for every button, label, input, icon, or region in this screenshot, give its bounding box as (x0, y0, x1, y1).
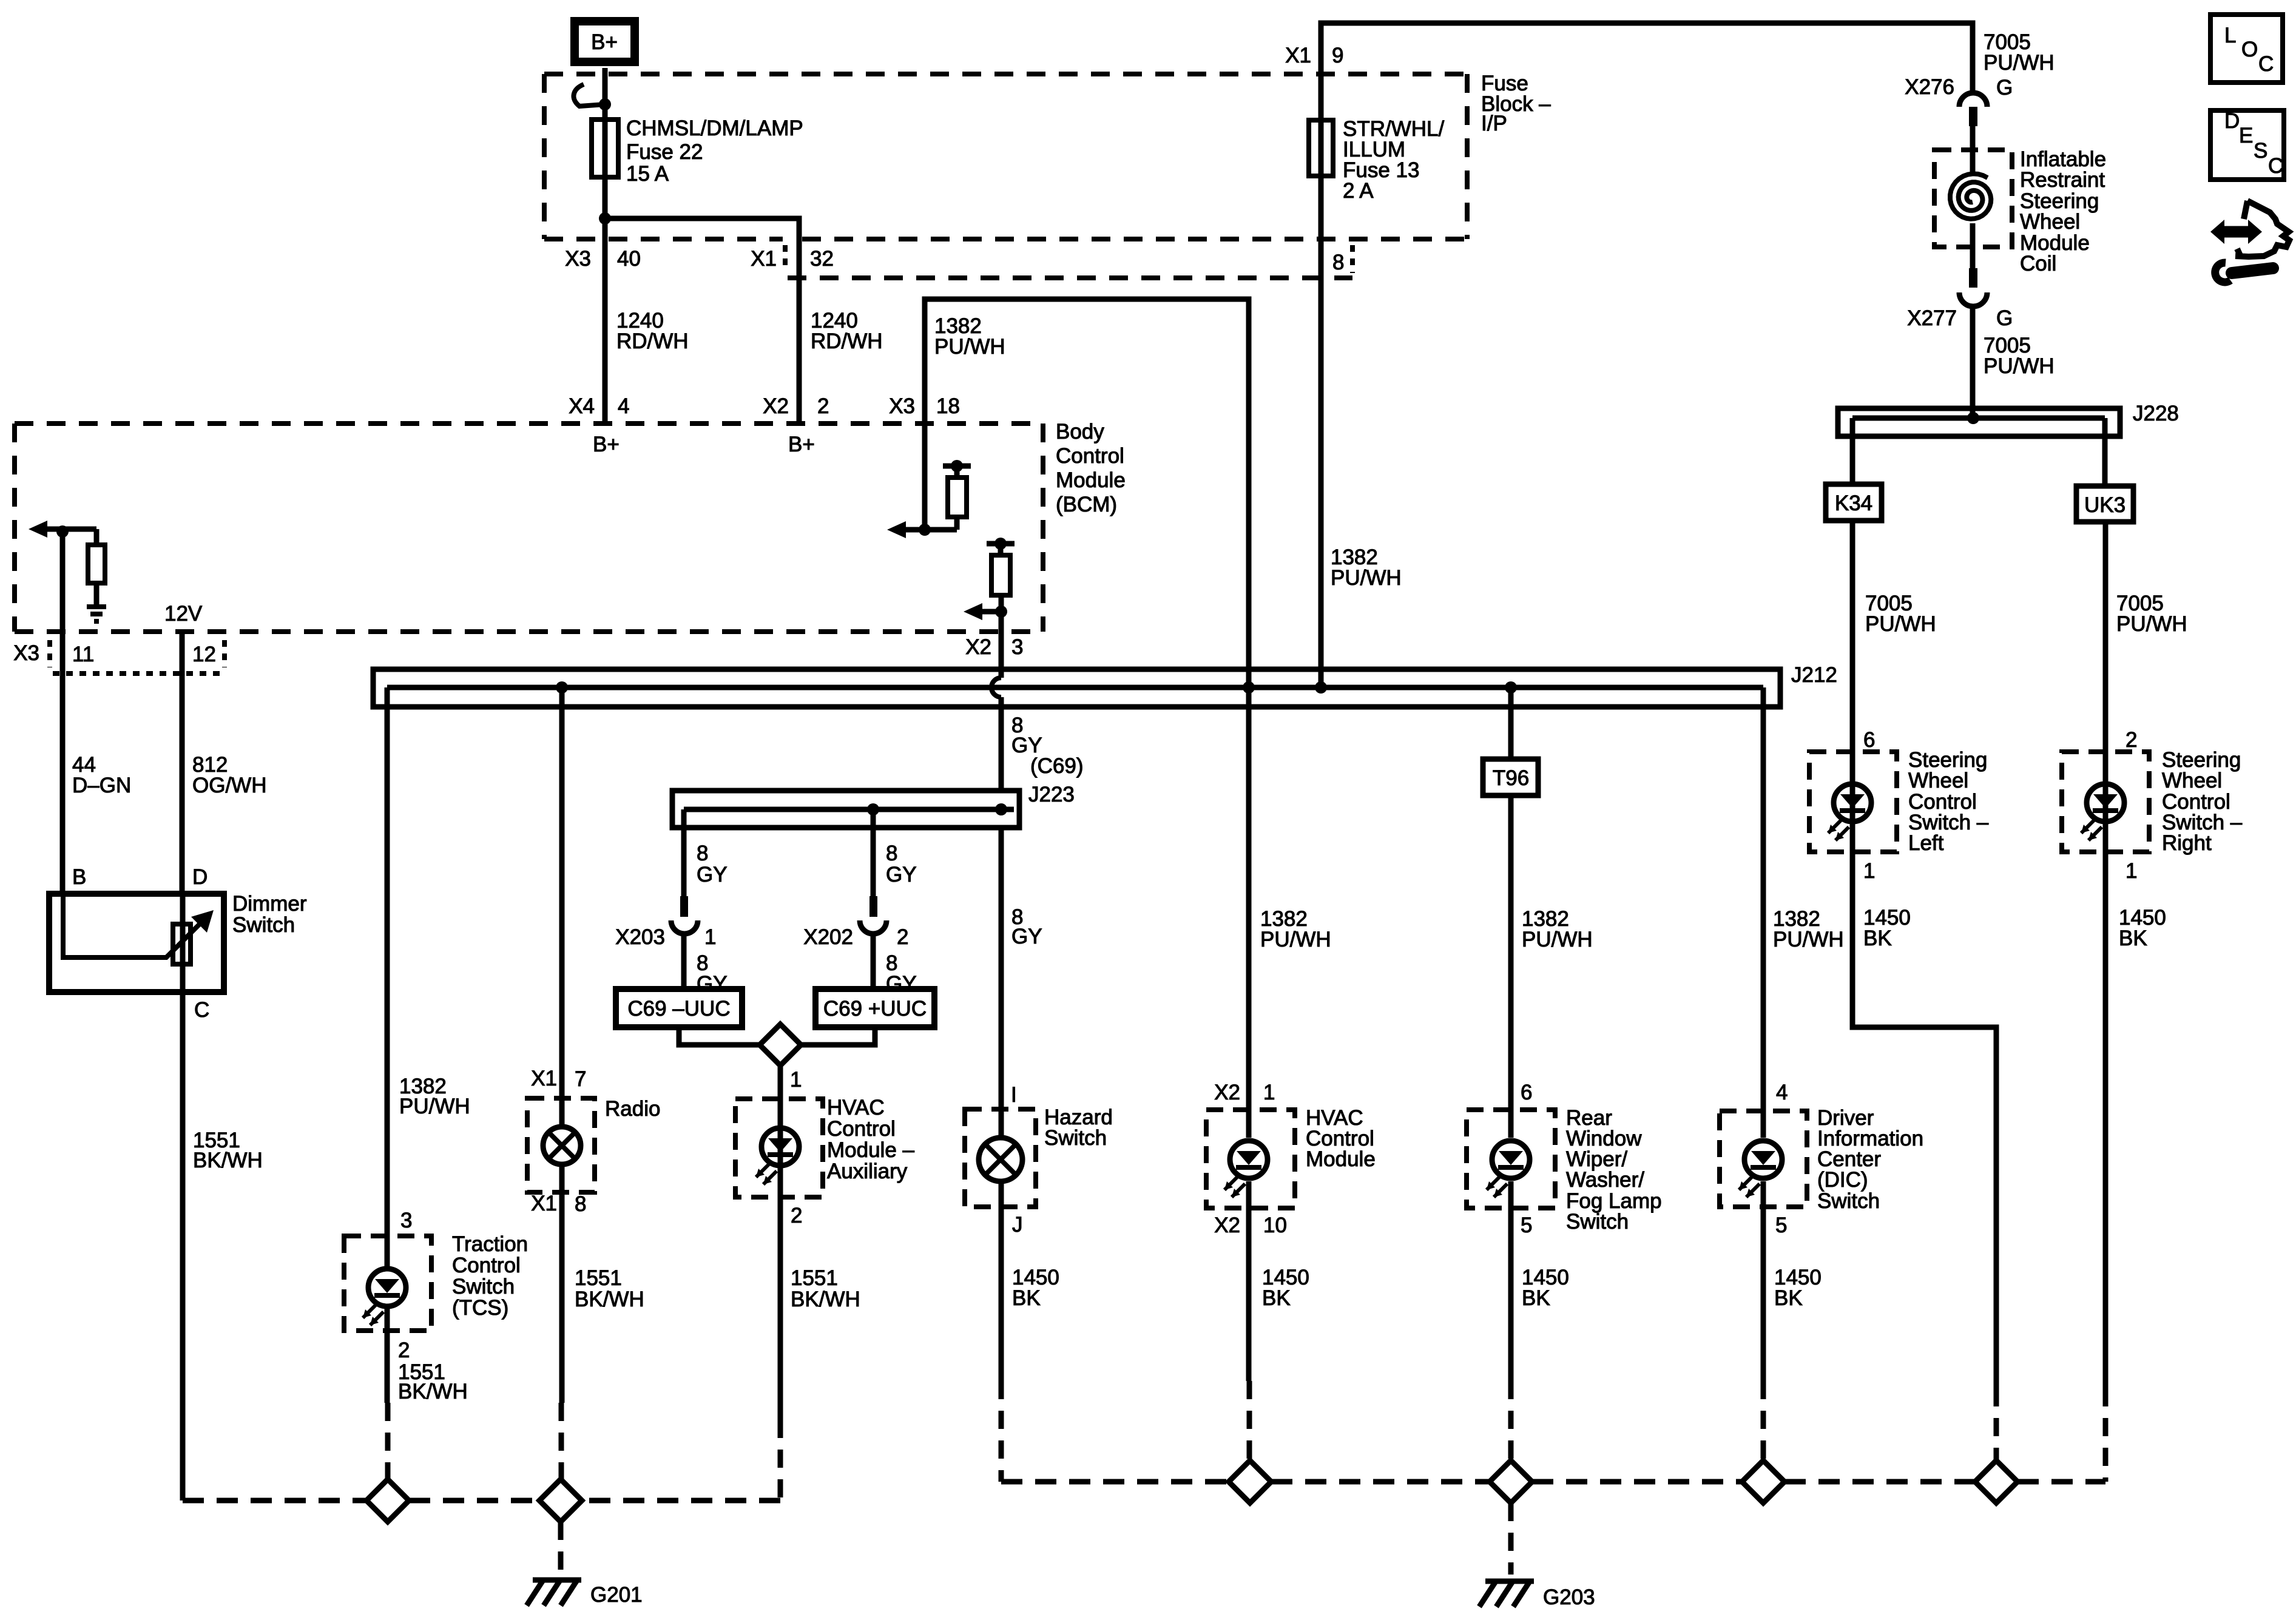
svg-text:C: C (2258, 52, 2274, 76)
splice diamond (539, 1479, 582, 1522)
pin 6 (1521, 1081, 1532, 1104)
wire label 1551 BK/WH (398, 1360, 468, 1403)
svg-text:Washer/: Washer/ (1566, 1168, 1644, 1192)
wire label 1240 RD/WH (811, 309, 883, 353)
svg-text:Wheel: Wheel (2162, 769, 2222, 792)
svg-text:3: 3 (400, 1209, 412, 1232)
hazard label (1044, 1106, 1113, 1150)
wire branch to X1 32 (605, 218, 799, 424)
svg-text:Left: Left (1908, 831, 1944, 855)
wire label 1551 BK/WH (575, 1266, 644, 1311)
circuit breaker hook (573, 84, 605, 106)
svg-text:X2: X2 (965, 635, 991, 659)
svg-text:4: 4 (1776, 1081, 1788, 1104)
wire X276 to coil (1970, 126, 1976, 150)
svg-text:HVAC: HVAC (827, 1096, 885, 1119)
pin X2 3 (965, 635, 1023, 659)
wire label 44 D-GN (72, 753, 131, 797)
svg-text:BK: BK (1863, 927, 1892, 950)
wire BCM X2-3 output (999, 612, 1004, 678)
svg-text:X277: X277 (1907, 306, 1957, 330)
internal supply bar (943, 460, 971, 472)
net label 12V (164, 602, 203, 626)
pin J (1012, 1213, 1023, 1237)
option box T96 (1483, 759, 1538, 795)
svg-text:10: 10 (1263, 1214, 1287, 1237)
svg-text:X1: X1 (1285, 44, 1311, 67)
svg-text:PU/WH: PU/WH (1331, 566, 1402, 590)
HVAC control module label (1306, 1106, 1376, 1171)
fuse block label (1481, 72, 1551, 135)
svg-text:GY: GY (886, 972, 917, 996)
svg-text:D: D (2224, 109, 2240, 133)
pin X1 9 (1285, 44, 1343, 67)
svg-text:RD/WH: RD/WH (616, 329, 689, 353)
svg-text:BK/WH: BK/WH (398, 1380, 468, 1403)
wire to splice diamond (801, 1027, 875, 1045)
svg-text:1: 1 (1863, 859, 1875, 883)
wire HVAC aux ground (582, 1197, 780, 1501)
BCM label (1056, 420, 1126, 516)
svg-text:Module: Module (1306, 1147, 1376, 1171)
internal output arrow (887, 521, 957, 538)
svg-text:(DIC): (DIC) (1817, 1168, 1868, 1192)
rear wiper switch dashed box (1467, 1110, 1555, 1208)
svg-text:E: E (2239, 124, 2253, 147)
HVAC control module dashed box (1206, 1110, 1295, 1208)
pin X1 32 (751, 247, 834, 271)
wire to splice diamond (679, 1027, 760, 1045)
svg-text:PU/WH: PU/WH (934, 335, 1005, 359)
HVAC Control Module Auxiliary dashed box (735, 1099, 823, 1197)
splice pack J228 (1838, 408, 2120, 436)
internal earth ground (87, 607, 106, 621)
internal pull-up resistor R1 (948, 467, 967, 530)
fuse F22 body (592, 120, 618, 177)
svg-text:K34: K34 (1835, 491, 1872, 515)
svg-text:G201: G201 (590, 1583, 643, 1607)
wire hop over J212 (991, 632, 1001, 791)
pin X3 18 (889, 394, 960, 418)
svg-text:8: 8 (886, 842, 897, 865)
wire label 1450 BK (1012, 1266, 1059, 1310)
wire 812 OG/WH (180, 632, 185, 894)
svg-text:B+: B+ (591, 30, 618, 54)
svg-text:B+: B+ (788, 433, 815, 456)
pin 2 (398, 1338, 410, 1362)
splice label J212 (1791, 663, 1837, 687)
ground bus dashed right (1001, 1479, 2105, 1485)
splice diamond (760, 1024, 801, 1065)
svg-text:Dimmer: Dimmer (232, 892, 307, 916)
svg-text:1551: 1551 (575, 1266, 622, 1290)
svg-text:6: 6 (1863, 728, 1875, 752)
wire wiper ground (1508, 1181, 1514, 1460)
wire 44 D-GN (60, 532, 66, 894)
svg-text:PU/WH: PU/WH (399, 1095, 470, 1118)
svg-text:X1: X1 (751, 247, 777, 271)
svg-text:J223: J223 (1028, 783, 1075, 806)
svg-text:12V: 12V (164, 602, 203, 626)
legend icon arrows and wrench (2210, 201, 2289, 282)
pin X4 4 (569, 394, 629, 418)
pin 5 (1521, 1214, 1532, 1237)
junction dot J212 hvac (1243, 681, 1255, 694)
wire steering right ground (2103, 852, 2109, 1482)
wire label 1382 PU/WH (1331, 545, 1402, 590)
svg-text:X202: X202 (803, 925, 853, 949)
svg-text:Right: Right (2162, 831, 2212, 855)
svg-text:2: 2 (817, 394, 829, 418)
wire B+ feed to fuse 22 (603, 68, 608, 424)
connector X277 G (1907, 247, 2013, 330)
steering left LED indicator (1828, 784, 1871, 852)
svg-text:6: 6 (1521, 1081, 1532, 1104)
dimmer switch label (232, 892, 307, 937)
svg-text:J: J (1012, 1213, 1023, 1237)
ground G203 (1479, 1581, 1595, 1609)
pin C (194, 998, 209, 1022)
ground bus dashed (183, 1498, 539, 1504)
svg-text:GY: GY (1011, 925, 1042, 948)
svg-text:GY: GY (697, 972, 728, 996)
junction dot J228 (1967, 412, 1979, 424)
svg-text:BK/WH: BK/WH (193, 1149, 263, 1172)
wire UK3 to steering switch right (2103, 522, 2109, 784)
steering wheel control switch right dashed box (2062, 752, 2149, 852)
Body Control Module dashed box (15, 424, 1043, 632)
svg-text:BK: BK (2119, 927, 2147, 950)
pin 2 (2125, 728, 2137, 752)
pin 5 (1775, 1214, 1787, 1237)
svg-text:Fuse 22: Fuse 22 (626, 140, 703, 164)
wire label 1382 PU/WH (1522, 907, 1593, 951)
svg-text:PU/WH: PU/WH (1865, 612, 1936, 636)
svg-text:Traction: Traction (452, 1232, 528, 1256)
svg-text:PU/WH: PU/WH (1522, 928, 1593, 951)
wire TCS ground (387, 1306, 388, 1479)
svg-text:Switch: Switch (1566, 1210, 1629, 1234)
svg-text:D: D (192, 865, 208, 889)
splice diamond (366, 1479, 409, 1522)
splice label J223 (1028, 783, 1075, 806)
wire label 1382 PU/WH (1773, 907, 1844, 951)
splice diamond (1975, 1460, 2017, 1503)
svg-text:Coil: Coil (2020, 252, 2056, 275)
svg-text:Switch: Switch (1044, 1126, 1107, 1150)
fuse block I/P module dashed box (544, 74, 1467, 239)
wire J212 to DIC (1761, 687, 1766, 1138)
wire HVAC ground (1249, 1181, 1249, 1460)
wire label 8 GY (886, 951, 917, 996)
svg-text:CHMSL/DM/LAMP: CHMSL/DM/LAMP (626, 116, 803, 140)
splice diamond (1490, 1460, 1532, 1503)
internal pull-up resistor R2 (991, 544, 1010, 612)
wire fuse13 top feed (1321, 23, 1973, 687)
svg-text:S: S (2254, 139, 2267, 163)
wire steering left ground (1852, 852, 1996, 1460)
svg-text:C69 –UUC: C69 –UUC (627, 997, 730, 1021)
wire label 812 OG/WH (192, 753, 266, 797)
svg-text:40: 40 (617, 247, 641, 271)
svg-text:Wheel: Wheel (1908, 769, 1968, 792)
svg-text:Body: Body (1056, 420, 1104, 444)
wire J228 to K34 (1850, 418, 1855, 484)
connector X203 pin 1 (615, 896, 716, 949)
steering right label (2162, 748, 2243, 855)
svg-text:2: 2 (398, 1338, 410, 1362)
junction dot (599, 98, 611, 110)
pin D (192, 865, 208, 889)
svg-text:PU/WH: PU/WH (2116, 612, 2187, 636)
traction control switch dashed box (344, 1236, 431, 1331)
svg-text:1551: 1551 (791, 1266, 838, 1290)
svg-text:5: 5 (1775, 1214, 1787, 1237)
wire X203 to C69-UUC (681, 934, 687, 989)
pin 1 (1863, 859, 1875, 883)
svg-text:G: G (1996, 306, 2013, 330)
svg-text:X2: X2 (1214, 1081, 1240, 1104)
svg-text:1: 1 (790, 1068, 802, 1092)
pin X2 10 (1214, 1214, 1287, 1237)
splice pack J212 (373, 669, 1780, 707)
svg-text:BK: BK (1522, 1286, 1550, 1310)
svg-text:X2: X2 (763, 394, 789, 418)
HVAC control module LED indicator (1224, 1141, 1268, 1197)
wire X3-18 loop to J212 (925, 299, 1249, 687)
svg-text:32: 32 (810, 247, 834, 271)
internal supply bar (987, 538, 1015, 550)
junction dot (919, 524, 931, 536)
wire label 1450 BK (1774, 1266, 1822, 1310)
junction dot J212 T96 (1505, 681, 1517, 694)
steering left label (1908, 748, 1989, 855)
svg-text:2: 2 (2125, 728, 2137, 752)
svg-text:B: B (72, 865, 86, 889)
junction dot J212 fuse13 (1315, 681, 1327, 694)
pin 3 (400, 1209, 412, 1232)
svg-text:G: G (1996, 76, 2013, 100)
HVAC aux label (827, 1096, 915, 1183)
splice diamond (1742, 1460, 1784, 1503)
svg-text:8: 8 (1332, 251, 1344, 274)
svg-text:Switch: Switch (1817, 1189, 1880, 1213)
svg-text:8: 8 (575, 1192, 586, 1216)
connector X3 pins 11 12 (13, 640, 225, 673)
wire label 7005 PU/WH (1865, 592, 1936, 636)
wire J212 to radio (559, 687, 565, 1127)
svg-text:(BCM): (BCM) (1056, 493, 1117, 516)
pin 1 (2125, 859, 2137, 883)
option box K34 (1826, 484, 1882, 521)
svg-text:1: 1 (704, 925, 716, 949)
svg-text:X2: X2 (1214, 1214, 1240, 1237)
wire 1551 BK/WH from dimmer (180, 992, 186, 1501)
svg-text:BK: BK (1012, 1286, 1041, 1310)
pin B (72, 865, 86, 889)
DIC LED indicator (1739, 1141, 1782, 1197)
connector X1 boundary dotted line (785, 245, 1352, 278)
svg-text:PU/WH: PU/WH (1773, 928, 1844, 951)
dimmer variable resistor (173, 894, 191, 992)
svg-text:7: 7 (575, 1067, 586, 1091)
wire J223 to hazard (999, 828, 1004, 1138)
svg-text:Control: Control (452, 1254, 521, 1277)
splice label J228 (2133, 402, 2179, 425)
legend box LOC (2210, 15, 2283, 83)
svg-text:X3: X3 (565, 247, 591, 271)
steering wheel control switch left dashed box (1809, 752, 1897, 852)
svg-text:1: 1 (1263, 1081, 1275, 1104)
wire to G201 (558, 1522, 564, 1573)
fuse 13 label (1343, 117, 1445, 203)
ground G201 (527, 1580, 643, 1607)
svg-text:11: 11 (72, 643, 94, 666)
pin 8 (1332, 251, 1344, 274)
internal input arrow (29, 521, 96, 538)
svg-text:GY: GY (886, 863, 917, 886)
svg-text:X4: X4 (569, 394, 595, 418)
pin X3 40 (565, 247, 641, 271)
junction dot J223 X202 (867, 803, 879, 815)
svg-text:BK: BK (1774, 1286, 1803, 1310)
net box C69 +UUC (815, 989, 934, 1027)
wire X202 to C69+UUC (871, 934, 876, 989)
svg-text:OG/WH: OG/WH (192, 774, 266, 797)
rear wiper label (1566, 1106, 1662, 1234)
svg-text:O: O (2241, 38, 2258, 61)
wire to G203 (1508, 1503, 1514, 1575)
net label B+ (593, 433, 620, 456)
svg-text:18: 18 (936, 394, 960, 418)
power symbol B+ (575, 21, 635, 62)
internal output arrow (964, 603, 1001, 620)
pin 2 (791, 1204, 802, 1227)
svg-text:8: 8 (697, 842, 708, 865)
svg-text:L: L (2224, 24, 2236, 47)
coil label (2020, 147, 2106, 275)
svg-text:PU/WH: PU/WH (1984, 51, 2055, 75)
dimmer wiper arm (63, 894, 214, 957)
wire label 8 GY C69 (1011, 714, 1084, 778)
wire radio ground (561, 1164, 562, 1479)
pin X2 1 (1214, 1081, 1275, 1104)
svg-text:T96: T96 (1493, 766, 1529, 790)
pin X1 8 (531, 1192, 586, 1216)
svg-text:Control: Control (1056, 444, 1124, 468)
DIC label (1817, 1106, 1923, 1213)
svg-text:I/P: I/P (1481, 112, 1507, 135)
wire label 1450 BK (1262, 1266, 1309, 1310)
wire inside BCM from pin 18 (922, 424, 928, 530)
svg-text:X203: X203 (615, 925, 665, 949)
wire label 1382 PU/WH (1260, 907, 1331, 951)
pin X1 7 (531, 1067, 586, 1091)
svg-text:2 A: 2 A (1343, 179, 1374, 203)
wire label 7005 PU/WH (1984, 334, 2055, 378)
rear wiper LED indicator (1487, 1141, 1530, 1197)
svg-text:X1: X1 (531, 1067, 557, 1090)
internal pull-down resistor R3 (88, 529, 105, 606)
junction dot (995, 606, 1007, 618)
splice diamond (1229, 1460, 1271, 1503)
svg-text:J212: J212 (1791, 663, 1837, 687)
svg-text:X1: X1 (531, 1192, 557, 1215)
svg-text:1: 1 (2125, 859, 2137, 883)
junction dot (56, 525, 69, 538)
svg-text:C69 +UUC: C69 +UUC (823, 997, 927, 1021)
wire label 1382 PU/WH (934, 314, 1005, 359)
wire hazard ground (999, 1181, 1004, 1482)
wire J212 to TCS (385, 687, 390, 1269)
svg-text:BK/WH: BK/WH (791, 1288, 860, 1311)
legend box DESC (2210, 109, 2284, 180)
coil spiral (1950, 150, 1991, 247)
svg-text:B+: B+ (593, 433, 620, 456)
pin 6 (1863, 728, 1875, 752)
svg-text:BK/WH: BK/WH (575, 1288, 644, 1311)
svg-text:PU/WH: PU/WH (1260, 928, 1331, 951)
wire label 1382 PU/WH (399, 1075, 470, 1118)
option box UK3 (2076, 486, 2133, 522)
wire label 7005 PU/WH (1984, 30, 2055, 75)
svg-text:12: 12 (192, 643, 216, 666)
wire 8 GY to X202 (871, 809, 876, 896)
wire label 7005 PU/WH (2116, 592, 2187, 636)
wire to HVAC aux pin 1 (778, 1065, 783, 1197)
wire X277 to J228 (1970, 305, 1976, 418)
svg-text:4: 4 (618, 394, 629, 418)
fuse 22 label (626, 116, 803, 186)
svg-text:I: I (1011, 1083, 1017, 1107)
svg-text:Control: Control (827, 1117, 896, 1141)
wire J228 to UK3 (2102, 418, 2108, 486)
pin 1 (790, 1068, 802, 1092)
svg-text:9: 9 (1332, 44, 1343, 67)
dimmer switch box (49, 894, 224, 992)
svg-text:(C69): (C69) (1030, 754, 1084, 778)
svg-text:GY: GY (697, 863, 728, 886)
svg-text:X276: X276 (1905, 75, 1954, 99)
wire label 8 GY (697, 842, 728, 886)
wire label 1240 RD/WH (616, 309, 689, 353)
wire DIC ground (1761, 1181, 1766, 1460)
pin X2 2 (763, 394, 829, 418)
svg-text:Module: Module (1056, 468, 1126, 492)
svg-text:Restraint: Restraint (2020, 168, 2105, 192)
svg-text:J228: J228 (2133, 402, 2179, 425)
svg-text:Switch: Switch (452, 1275, 515, 1298)
svg-text:C: C (2268, 154, 2283, 178)
net label B+ (788, 433, 815, 456)
fuse F13 body (1309, 120, 1333, 176)
DIC switch dashed box (1720, 1111, 1807, 1207)
svg-text:Wheel: Wheel (2020, 210, 2080, 234)
wire T96 to wiper switch (1508, 795, 1514, 1138)
svg-text:2: 2 (791, 1204, 802, 1227)
TCS label (452, 1232, 528, 1320)
wire label 8 GY (1011, 905, 1042, 948)
svg-text:Auxiliary: Auxiliary (827, 1160, 908, 1183)
svg-text:X3: X3 (889, 394, 915, 418)
pin I (1011, 1083, 1017, 1107)
wire label 8 GY (697, 951, 728, 996)
wire 8 GY to X203 (681, 809, 687, 896)
HVAC aux LED indicator (756, 1128, 799, 1184)
wire label 8 GY (886, 842, 917, 886)
svg-text:G203: G203 (1543, 1585, 1595, 1609)
TCS LED indicator (363, 1269, 406, 1325)
